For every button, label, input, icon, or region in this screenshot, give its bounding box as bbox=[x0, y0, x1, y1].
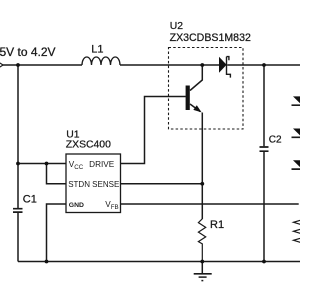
svg-text:ZX3CDBS1M832: ZX3CDBS1M832 bbox=[170, 32, 251, 44]
svg-text:VCC: VCC bbox=[69, 160, 84, 171]
svg-text:GND: GND bbox=[69, 202, 84, 209]
svg-text:R1: R1 bbox=[210, 219, 224, 231]
svg-text:DRIVE: DRIVE bbox=[89, 160, 115, 169]
svg-text:5V to 4.2V: 5V to 4.2V bbox=[0, 45, 56, 59]
svg-text:ZXSC400: ZXSC400 bbox=[66, 139, 111, 150]
svg-text:VFB: VFB bbox=[105, 200, 118, 211]
svg-text:STDN: STDN bbox=[68, 180, 90, 189]
svg-text:L1: L1 bbox=[91, 44, 103, 56]
svg-text:C1: C1 bbox=[23, 194, 37, 206]
svg-text:U2: U2 bbox=[170, 21, 184, 32]
svg-text:C2: C2 bbox=[269, 135, 282, 146]
svg-text:SENSE: SENSE bbox=[92, 180, 119, 189]
